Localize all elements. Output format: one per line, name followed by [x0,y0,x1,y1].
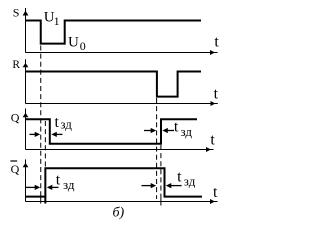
R time axis [26,103,218,105]
Q left delay arrow right-pointing [30,133,37,135]
svg-text:зд: зд [60,117,72,132]
dashed line D4 through Q rise [160,145,162,196]
Qbar vertical axis arrowhead [23,163,29,167]
R waveform [26,72,202,97]
Qbar left delay arrow left-pointing [51,186,59,188]
S vertical axis arrowhead [23,11,29,16]
svg-text:Q: Q [11,162,20,176]
Qbar rise edge extension below axis [44,197,46,204]
Qbar waveform [26,168,203,196]
tick of D1 crossing Qbar axis [40,197,42,204]
Q vertical axis arrowhead [23,113,29,117]
Qbar time axis arrowhead [210,199,215,204]
R vertical axis [25,59,27,103]
S time axis arrowhead [210,50,215,55]
svg-text:t: t [56,172,61,189]
svg-text:б): б) [113,206,125,221]
svg-text:Q: Q [11,111,20,125]
Q waveform [26,119,198,143]
svg-text:1: 1 [54,14,60,28]
Q vertical axis [25,109,27,150]
dashed line D2 through Qbar rise [44,121,46,204]
svg-text:t: t [214,86,219,103]
Q time axis arrowhead [206,147,211,152]
svg-text:t: t [174,119,179,136]
S waveform [26,21,202,44]
Qbar time axis [26,201,218,203]
dashed line D3 from R fall [156,98,158,199]
svg-text:R: R [12,59,20,71]
svg-text:зд: зд [184,173,196,188]
svg-text:S: S [13,6,20,20]
Q left delay arrow left-pointing [55,133,63,135]
svg-text:зд: зд [63,177,75,192]
R vertical axis arrowhead [23,63,29,67]
svg-text:t: t [177,168,182,185]
Qbar vertical axis [25,159,27,201]
R time axis arrowhead [211,101,216,106]
svg-text:U: U [68,35,79,51]
Q right delay arrow left-pointing [166,130,174,132]
S vertical axis [25,8,27,53]
svg-text:t: t [55,114,60,131]
svg-text:t: t [213,184,218,201]
Qbar right delay arrow right-pointing [142,185,153,187]
svg-text:t: t [214,34,219,51]
svg-text:t: t [210,132,215,149]
svg-text:0: 0 [80,39,86,53]
Q time axis [26,149,214,151]
tick of D4 crossing Qbar axis [160,196,162,206]
Qbar overbar [10,160,17,162]
Q right delay arrow right-pointing [144,130,153,132]
Qbar left delay arrow right-pointing [26,186,37,188]
svg-text:зд: зд [181,124,193,139]
Qbar right delay arrow left-pointing [170,185,182,187]
S time axis [26,52,218,54]
dashed line D1 from S fall [40,46,42,197]
